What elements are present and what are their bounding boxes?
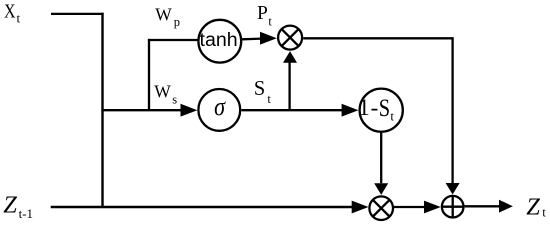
wire: branch vertical up to tanh row xyxy=(148,39,150,110)
svg-text:t: t xyxy=(268,14,272,28)
arrowhead into top multiplier from left xyxy=(260,32,277,45)
node X_t input label xyxy=(4,0,21,26)
bottom multiplier node M2 (Z_t-1 x (1-S_t)) xyxy=(369,196,393,220)
wire: tanh output to multiplier xyxy=(242,37,262,40)
svg-text:X: X xyxy=(4,0,16,22)
svg-text:s: s xyxy=(172,92,177,106)
svg-text:P: P xyxy=(257,3,268,24)
wire: mid horizontal from bus to sigma xyxy=(101,109,182,111)
wire: bottom multiplier to adder xyxy=(394,206,425,208)
arrowhead into sigma xyxy=(181,104,198,117)
arrowhead into 1-S_t xyxy=(342,104,359,117)
label P_t xyxy=(257,3,272,29)
node Z_t-1 input label xyxy=(3,191,33,221)
wire: adder output to Z_t xyxy=(465,205,500,207)
label S_t xyxy=(254,75,272,106)
wire: sigma output horizontal to 1-S_t xyxy=(241,109,343,111)
svg-text:S: S xyxy=(254,75,265,100)
arrowhead into adder from top xyxy=(446,183,460,195)
wire: S_t branch vertical up to multiplier xyxy=(288,62,290,110)
svg-text:σ: σ xyxy=(214,93,226,121)
sigma unit U2 xyxy=(198,89,240,131)
svg-text:t: t xyxy=(390,109,394,124)
label W_s xyxy=(154,82,177,107)
svg-text:tanh: tanh xyxy=(200,29,238,51)
node Z_t output label xyxy=(526,193,546,220)
1-S_t unit U3 xyxy=(358,89,403,132)
svg-text:t: t xyxy=(542,205,546,220)
adder node A1 xyxy=(442,196,464,218)
svg-text:-: - xyxy=(371,95,379,120)
arrowhead into top multiplier from below xyxy=(283,51,297,63)
wire: main vertical bus from X_t down to Z_t-1 line xyxy=(101,13,103,207)
wire: multiplier output right and down to adder xyxy=(303,38,452,183)
arrowhead output Z_t xyxy=(499,200,513,213)
svg-text:W: W xyxy=(155,4,172,24)
svg-text:Z: Z xyxy=(526,193,540,220)
svg-text:t-1: t-1 xyxy=(19,206,33,221)
arrowhead into bottom multiplier from top xyxy=(374,183,388,195)
wire: 1-S_t down to bottom multiplier xyxy=(380,133,382,183)
svg-text:W: W xyxy=(154,82,171,102)
svg-text:t: t xyxy=(267,92,271,106)
wire: Z_t-1 bottom horizontal xyxy=(51,206,352,209)
multiplier node M1 (P_t x S_t) xyxy=(278,26,302,50)
arrowhead into adder from left xyxy=(424,201,441,214)
svg-text:Z: Z xyxy=(3,191,17,218)
svg-text:S: S xyxy=(379,93,390,122)
wire: X_t top horizontal xyxy=(51,13,104,15)
svg-text:p: p xyxy=(174,15,180,29)
svg-text:t: t xyxy=(17,11,21,26)
wire: horizontal into tanh xyxy=(148,39,198,41)
tanh unit U1 xyxy=(198,20,241,63)
label W_p xyxy=(155,4,180,29)
arrowhead into bottom multiplier from left xyxy=(352,201,369,214)
svg-text:1: 1 xyxy=(358,95,370,120)
